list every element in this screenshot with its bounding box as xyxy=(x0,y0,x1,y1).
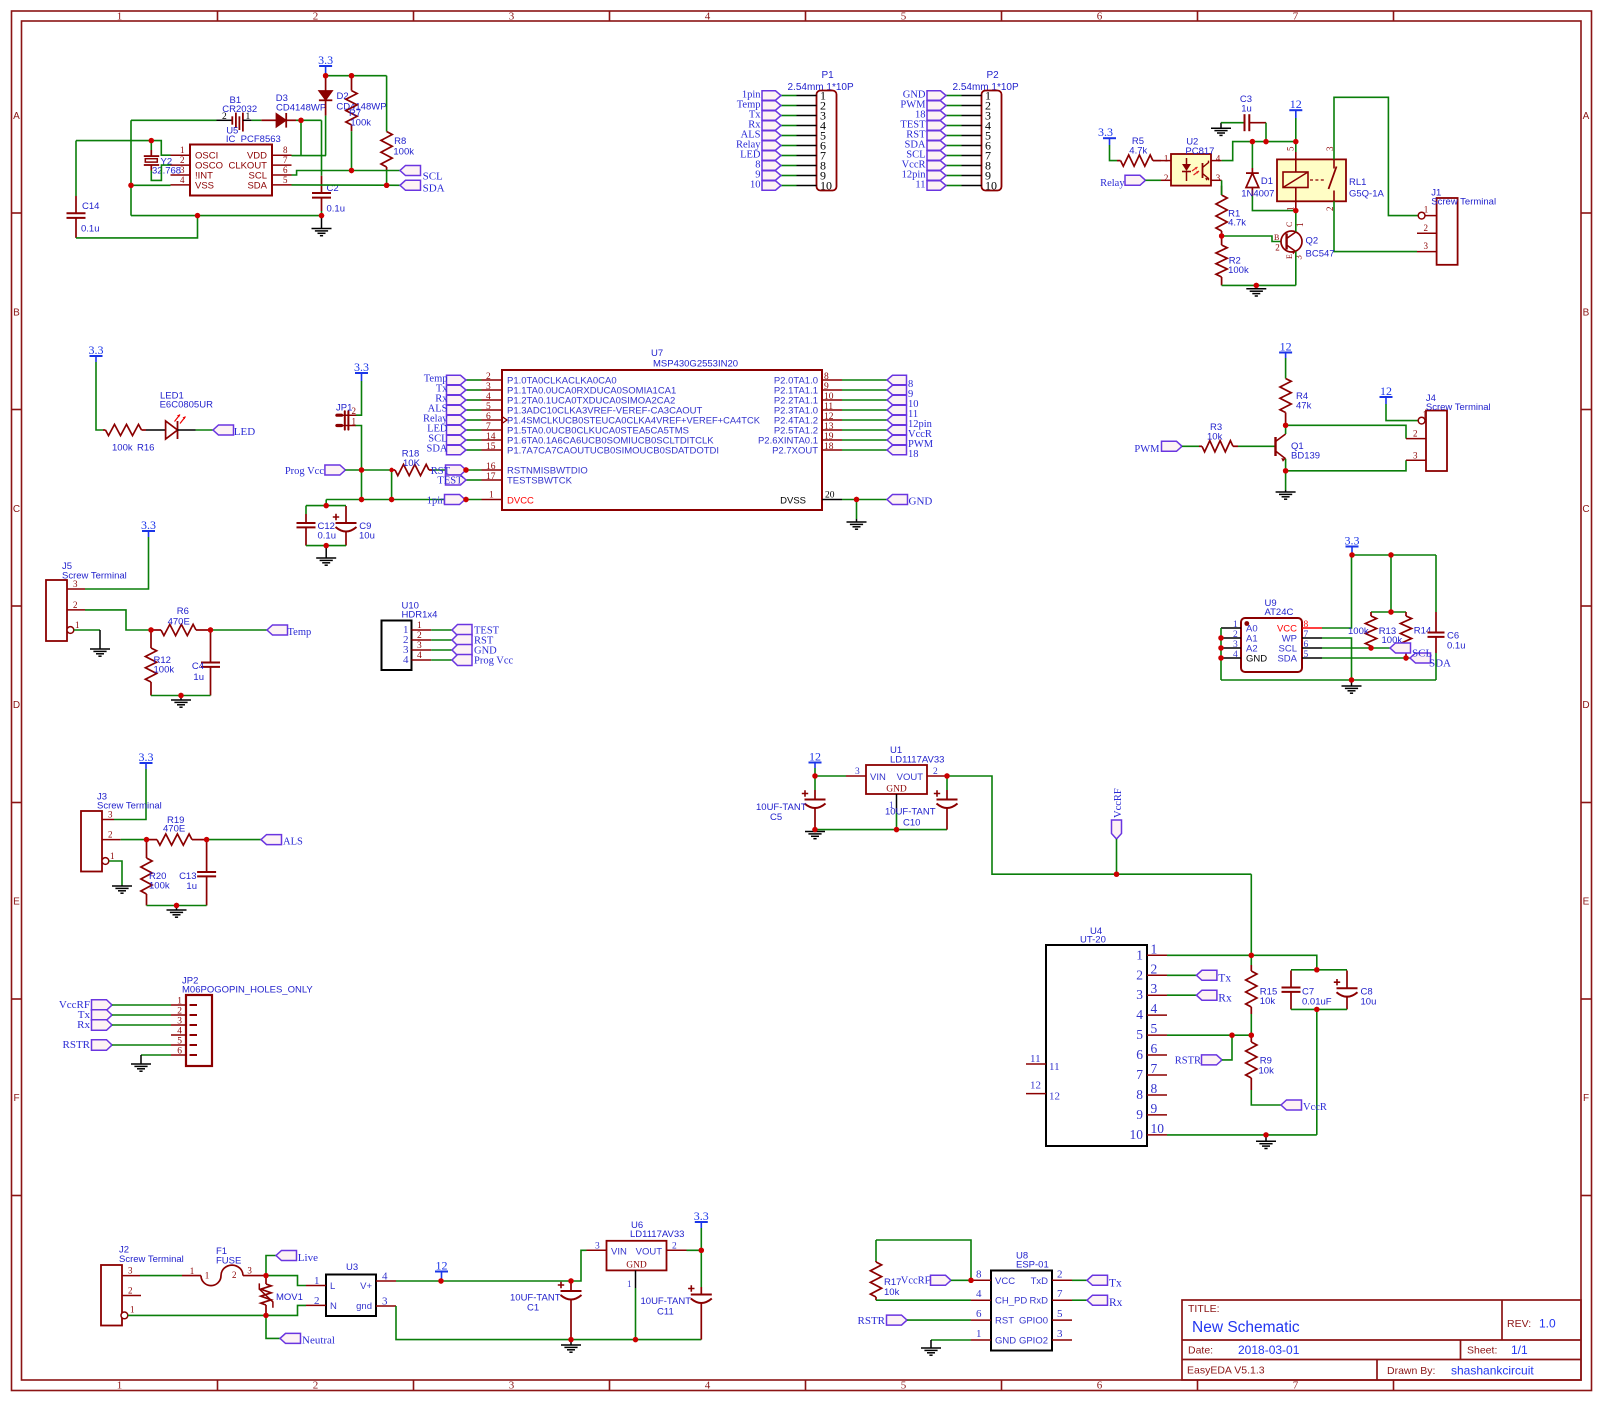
port Neutral xyxy=(280,1333,301,1343)
port Live xyxy=(276,1251,297,1261)
port Temp xyxy=(267,625,288,635)
svg-text:4: 4 xyxy=(417,651,422,661)
wire xyxy=(391,470,393,500)
svg-text:10K: 10K xyxy=(403,458,421,469)
wire DVSS xyxy=(842,499,887,501)
port Tx (U8) xyxy=(1087,1275,1108,1285)
svg-text:0.1u: 0.1u xyxy=(1447,641,1466,652)
U10 pin 1 xyxy=(412,629,432,631)
pin 7 CLKOUT xyxy=(272,164,292,166)
resistor R3 10k xyxy=(1199,445,1202,447)
P1 pin 1 xyxy=(797,95,817,97)
svg-text:B: B xyxy=(1583,307,1590,318)
port TEST xyxy=(446,475,467,485)
U10 pin 2 xyxy=(412,639,432,641)
svg-text:CD4148WP: CD4148WP xyxy=(336,102,386,113)
wire xyxy=(781,175,797,177)
J4 pin 1 xyxy=(1425,420,1426,422)
U7 pin 11 P2.3TA1.0 xyxy=(822,409,842,411)
port ALS xyxy=(762,131,781,140)
U7 pin 3 P1.1TA0.0UCA0RXDUCA0SOMIA1CA1 xyxy=(482,389,503,391)
port 18 (U7) xyxy=(887,445,907,454)
svg-text:1: 1 xyxy=(1164,154,1169,164)
svg-text:A: A xyxy=(1583,111,1590,122)
node xyxy=(1314,1007,1319,1012)
port SDA xyxy=(400,180,421,190)
ground (JP2) xyxy=(131,1055,151,1071)
svg-text:2: 2 xyxy=(313,1380,319,1392)
svg-text:G5Q-1A: G5Q-1A xyxy=(1349,189,1385,200)
svg-text:7: 7 xyxy=(1151,1061,1158,1076)
svg-text:D: D xyxy=(13,700,20,711)
wire xyxy=(946,155,962,157)
wire base xyxy=(1222,236,1284,242)
port 1pin xyxy=(762,91,781,100)
P1 pin 6 xyxy=(797,145,817,147)
svg-text:12: 12 xyxy=(809,750,821,764)
wire xyxy=(466,419,482,421)
port VccR (U4) xyxy=(1281,1100,1302,1110)
capacitor C13 1u xyxy=(206,840,208,872)
port RST xyxy=(927,131,946,140)
wire cap rail bottom xyxy=(306,545,346,547)
svg-text:12: 12 xyxy=(1280,340,1292,354)
port 12pin (U7) xyxy=(887,415,907,424)
node R19 right xyxy=(204,837,209,842)
wire xyxy=(114,769,146,820)
svg-text:C5: C5 xyxy=(770,812,782,823)
svg-text:GPIO0: GPIO0 xyxy=(1019,1316,1048,1327)
U7 pin 13 P2.5TA1.2 xyxy=(822,429,842,431)
wire xyxy=(1285,425,1287,434)
wire xyxy=(112,1024,171,1026)
power flag 12V (relay) xyxy=(1289,97,1302,118)
capacitor C4 1u xyxy=(210,630,212,663)
wire xyxy=(131,119,217,121)
svg-text:Screw Terminal: Screw Terminal xyxy=(97,801,162,812)
wire xyxy=(635,1288,637,1340)
svg-text:SDA: SDA xyxy=(423,183,445,195)
resistor R20 100k xyxy=(146,840,148,858)
wire emitter to J4 pin3 xyxy=(1286,460,1406,471)
node xyxy=(1314,967,1319,972)
svg-text:New Schematic: New Schematic xyxy=(1192,1319,1300,1336)
wire VDD row xyxy=(292,155,327,157)
node R15 bottom xyxy=(1249,1033,1254,1038)
node ProgVcc xyxy=(359,467,364,472)
node VOUT 3.3 xyxy=(699,1248,704,1253)
svg-text:Drawn By:: Drawn By: xyxy=(1387,1365,1435,1377)
svg-text:9: 9 xyxy=(1151,1101,1158,1116)
svg-text:18: 18 xyxy=(908,449,919,460)
J2 pin 3 xyxy=(122,1275,140,1277)
svg-text:8: 8 xyxy=(976,1268,982,1280)
svg-text:Prog Vcc: Prog Vcc xyxy=(474,656,514,667)
J4 pin 2 xyxy=(1406,438,1426,440)
power flag 3.3V (J5) xyxy=(141,518,156,537)
wire SCL xyxy=(1322,647,1390,649)
wire Live xyxy=(266,1256,276,1276)
svg-text:6: 6 xyxy=(1097,1380,1103,1392)
svg-text:TxD: TxD xyxy=(1031,1276,1049,1287)
port PWM xyxy=(927,101,946,110)
wire xyxy=(781,95,797,97)
port SCL (U7) xyxy=(447,435,467,444)
svg-text:E6C0805UR: E6C0805UR xyxy=(160,399,213,410)
svg-text:Tx: Tx xyxy=(1109,1277,1122,1289)
port Rx (U7) xyxy=(447,395,467,404)
wire xyxy=(946,185,962,187)
svg-text:15: 15 xyxy=(486,442,496,452)
port LED (U7) xyxy=(447,425,467,434)
svg-text:1u: 1u xyxy=(193,672,204,683)
node collector xyxy=(1283,423,1288,428)
pin 6 SCL xyxy=(272,174,292,176)
ground (DVSS) xyxy=(847,519,867,529)
U2 pin 3 xyxy=(1211,179,1222,181)
svg-text:4: 4 xyxy=(705,11,711,23)
svg-text:2: 2 xyxy=(177,1007,182,1017)
svg-text:0.1u: 0.1u xyxy=(327,204,346,215)
U4 pin 4 xyxy=(1147,1014,1167,1016)
svg-text:2: 2 xyxy=(108,830,113,840)
wire J2-1 xyxy=(128,1314,266,1316)
svg-text:GND: GND xyxy=(1246,654,1267,665)
wire Rx xyxy=(1072,1299,1087,1301)
wire J3-1 gnd xyxy=(109,861,122,885)
svg-text:CD4148WP: CD4148WP xyxy=(276,103,326,114)
wire Temp xyxy=(211,629,268,631)
svg-text:B: B xyxy=(13,307,20,318)
svg-text:4: 4 xyxy=(1216,154,1221,164)
power flag 3.3V (U9) xyxy=(1345,534,1360,556)
svg-text:RST: RST xyxy=(995,1316,1014,1327)
power flag 12V (R4) xyxy=(1279,340,1292,359)
svg-text:10: 10 xyxy=(1151,1121,1165,1136)
resistor R12 100k xyxy=(150,630,152,648)
svg-text:3: 3 xyxy=(108,810,113,820)
U4 pin 8 xyxy=(1147,1094,1167,1096)
svg-text:PC817: PC817 xyxy=(1185,146,1214,157)
U4 pin 9 xyxy=(1147,1114,1167,1116)
port GND (U10) xyxy=(452,645,472,656)
port 8 (U7) xyxy=(887,375,907,384)
svg-text:4.7k: 4.7k xyxy=(1228,218,1246,229)
wire VccRF to pin1 xyxy=(1250,874,1252,955)
U4 pin 3 xyxy=(1147,994,1167,996)
svg-text:C1: C1 xyxy=(527,1303,539,1314)
wire xyxy=(321,120,323,176)
U9 pin 3 A2 xyxy=(1221,647,1241,649)
wire xyxy=(76,216,198,238)
U7 pin 12 P2.4TA1.2 xyxy=(822,419,842,421)
ground (Q1) xyxy=(1276,490,1296,499)
wire xyxy=(842,399,887,401)
P2 pin 10 xyxy=(962,185,982,187)
wire pin10 xyxy=(1167,1134,1317,1136)
wire OSCO jog xyxy=(151,165,170,180)
svg-text:3: 3 xyxy=(1413,450,1418,460)
port GND xyxy=(887,495,908,505)
svg-text:RSTR: RSTR xyxy=(857,1315,885,1327)
resistor R14 100k xyxy=(1405,612,1407,616)
wire xyxy=(112,1004,171,1006)
svg-text:2: 2 xyxy=(1275,242,1280,252)
node VIN xyxy=(812,773,817,778)
connector J1 Screw Terminal xyxy=(1437,198,1458,265)
wire xyxy=(466,399,482,401)
wire xyxy=(1435,653,1437,680)
wire xyxy=(687,1228,702,1250)
J2 pin 2 xyxy=(122,1295,141,1297)
svg-text:1: 1 xyxy=(489,491,494,501)
resistor R2 100k xyxy=(1221,236,1223,245)
svg-text:TESTSBWTCK: TESTSBWTCK xyxy=(507,476,573,487)
ground (J3) xyxy=(112,885,132,893)
node xyxy=(1114,872,1119,877)
relay RL1 G5Q-1A xyxy=(1277,159,1346,201)
svg-text:P2.7XOUT: P2.7XOUT xyxy=(772,446,818,457)
port VccRF (rail) xyxy=(1112,820,1122,839)
wire relay pin2 down xyxy=(1334,201,1417,251)
JP2 pin 5 xyxy=(171,1044,186,1046)
svg-text:UT-20: UT-20 xyxy=(1080,935,1106,946)
svg-text:1: 1 xyxy=(180,145,185,155)
U7 pin 8 P2.0TA1.0 xyxy=(822,379,842,381)
U1 pin 2 VOUT xyxy=(927,775,947,777)
svg-text:7: 7 xyxy=(1293,1380,1299,1392)
port Rx (U8) xyxy=(1087,1295,1108,1305)
wire R13/R14 top xyxy=(1391,555,1406,612)
svg-text:5: 5 xyxy=(1304,650,1309,660)
svg-text:3: 3 xyxy=(1216,173,1221,183)
svg-text:CR2032: CR2032 xyxy=(222,104,257,115)
svg-text:12: 12 xyxy=(1030,1080,1041,1092)
U7 pin 4 P1.2TA0.1UCA0TXDUCA0SIMOA2CA2 xyxy=(482,399,503,401)
U7 pin 19 P2.6XINTA0.1 xyxy=(822,439,842,441)
diode D3 CD4148WP xyxy=(261,113,296,128)
svg-text:100k: 100k xyxy=(393,147,414,158)
power flag 3.3V (JP1) xyxy=(354,360,369,381)
node Q2 collector xyxy=(1293,208,1298,213)
resistor R16 100k xyxy=(103,429,106,431)
wire N xyxy=(266,1305,306,1315)
svg-text:C: C xyxy=(13,504,20,515)
U9 pin 2 A1 xyxy=(1221,637,1241,639)
U7 pin 15 P1.7A7CA7CAOUTUCB0SIMOUCB0SDATDOTDI xyxy=(482,449,503,451)
connector J4 Screw Terminal xyxy=(1426,411,1447,472)
LED LED1 E6C0805UR xyxy=(146,415,196,440)
svg-text:P2: P2 xyxy=(987,70,1000,81)
pin 1 OSCI xyxy=(171,154,191,156)
svg-text:3: 3 xyxy=(73,579,78,589)
svg-text:Sheet:: Sheet: xyxy=(1467,1345,1497,1357)
node 1pin xyxy=(463,497,468,502)
wire xyxy=(1295,118,1297,152)
svg-text:MSP430G2553IN20: MSP430G2553IN20 xyxy=(653,359,738,370)
svg-text:11: 11 xyxy=(915,180,925,191)
svg-text:GND: GND xyxy=(626,1261,647,1271)
wire xyxy=(466,449,482,451)
P2 pin 6 xyxy=(962,145,982,147)
svg-text:5: 5 xyxy=(901,11,907,23)
svg-text:12: 12 xyxy=(1290,97,1302,111)
svg-text:19: 19 xyxy=(824,432,834,442)
svg-text:11: 11 xyxy=(824,402,833,412)
svg-text:gnd: gnd xyxy=(356,1301,372,1312)
port Tx xyxy=(762,111,781,120)
port 11 (U7) xyxy=(887,405,907,414)
resistor R9 10k xyxy=(1250,1035,1252,1042)
svg-text:HDR1x4: HDR1x4 xyxy=(402,610,438,621)
svg-text:13: 13 xyxy=(824,422,834,432)
port SCL (U9) xyxy=(1390,643,1411,653)
svg-text:P1: P1 xyxy=(822,70,835,81)
svg-text:4: 4 xyxy=(1136,1007,1143,1022)
svg-text:A: A xyxy=(13,111,20,122)
svg-text:LD1117AV33: LD1117AV33 xyxy=(630,1229,684,1240)
U4 pin 11 xyxy=(1026,1063,1046,1065)
pin 5 SDA xyxy=(272,184,292,186)
svg-text:10u: 10u xyxy=(1361,997,1377,1008)
wire xyxy=(386,76,388,132)
svg-text:JP1: JP1 xyxy=(336,403,352,414)
svg-text:2: 2 xyxy=(1057,1268,1063,1280)
svg-text:6: 6 xyxy=(976,1308,982,1320)
svg-text:2: 2 xyxy=(128,1286,133,1296)
wire RST xyxy=(433,469,482,471)
svg-text:BC547: BC547 xyxy=(1306,249,1335,260)
svg-text:1: 1 xyxy=(352,416,357,426)
svg-text:6: 6 xyxy=(283,165,288,175)
wire collector xyxy=(1295,211,1297,232)
wire xyxy=(946,165,962,167)
svg-text:AT24C: AT24C xyxy=(1265,607,1294,618)
svg-text:17: 17 xyxy=(486,472,496,482)
svg-text:3: 3 xyxy=(509,1380,515,1392)
resistor R1 4.7k xyxy=(1221,186,1223,195)
svg-text:1N4007: 1N4007 xyxy=(1241,189,1274,200)
svg-text:1: 1 xyxy=(314,1275,320,1287)
svg-text:100k: 100k xyxy=(1348,626,1369,637)
wire gnd rail (U3) xyxy=(396,1306,701,1340)
capacitor C12 0.1u xyxy=(305,506,307,514)
U4 pin 10 xyxy=(1147,1134,1167,1136)
port 10 xyxy=(762,181,781,190)
U7 pin 20 DVSS xyxy=(822,499,842,501)
svg-text:5: 5 xyxy=(1286,146,1296,151)
svg-text:47k: 47k xyxy=(1296,401,1312,412)
pin 4 VSS xyxy=(171,184,191,186)
JP2 pin 4 xyxy=(171,1034,186,1036)
port Relay xyxy=(762,141,781,150)
J3 pin 3 xyxy=(102,819,114,821)
svg-text:3: 3 xyxy=(1151,981,1158,996)
svg-text:470E: 470E xyxy=(168,617,190,628)
wire Tx xyxy=(1072,1279,1087,1281)
wire xyxy=(356,426,362,500)
svg-text:6: 6 xyxy=(1097,11,1103,23)
wire xyxy=(946,125,962,127)
svg-text:Tx: Tx xyxy=(1218,973,1231,985)
svg-text:470E: 470E xyxy=(163,824,185,835)
svg-text:3.3: 3.3 xyxy=(139,750,154,764)
transistor Q2 BC547 xyxy=(1281,231,1302,254)
svg-text:2: 2 xyxy=(1151,961,1158,976)
wire xyxy=(252,119,262,121)
U7 pin 16 RSTNMISBWTDIO xyxy=(482,469,503,471)
svg-text:9: 9 xyxy=(1136,1107,1143,1122)
wire pin6 gnd xyxy=(141,1054,171,1056)
power flag 3.3V (opto) xyxy=(1098,125,1116,145)
svg-text:1: 1 xyxy=(627,1279,632,1289)
P1 pin 8 xyxy=(797,165,817,167)
svg-text:3.3: 3.3 xyxy=(141,518,156,532)
node 12V xyxy=(438,1278,443,1283)
resistor R15 10k xyxy=(1250,955,1252,965)
wire xyxy=(781,185,797,187)
port VccR (U7) xyxy=(887,425,907,434)
svg-text:M06POGOPIN_HOLES_ONLY: M06POGOPIN_HOLES_ONLY xyxy=(182,985,313,996)
wire xyxy=(431,639,452,641)
svg-text:C: C xyxy=(1285,222,1294,227)
svg-text:shashankcircuit: shashankcircuit xyxy=(1451,1364,1534,1378)
wire gnd xyxy=(931,1339,971,1341)
svg-text:20: 20 xyxy=(825,491,835,501)
svg-text:12: 12 xyxy=(1049,1091,1060,1103)
node xyxy=(894,827,899,832)
svg-text:E: E xyxy=(13,897,20,908)
svg-text:4: 4 xyxy=(976,1288,982,1300)
wire emitter xyxy=(1295,252,1297,286)
svg-text:3.3: 3.3 xyxy=(1345,534,1360,548)
svg-text:7: 7 xyxy=(1293,11,1299,23)
resistor R18 10K xyxy=(392,469,395,471)
varistor MOV1 xyxy=(265,1276,267,1284)
node xyxy=(633,1337,638,1342)
svg-text:Screw Terminal: Screw Terminal xyxy=(1431,197,1496,208)
node C2 ground xyxy=(319,213,324,218)
svg-text:2: 2 xyxy=(1164,173,1169,183)
U9 pin 6 SCL xyxy=(1302,647,1322,649)
U10 pin 4 xyxy=(412,659,432,661)
capacitor C8 10u xyxy=(1346,971,1348,989)
wire xyxy=(466,389,482,391)
node R15 top xyxy=(1249,953,1254,958)
svg-text:1.0: 1.0 xyxy=(1539,1317,1556,1331)
wire xyxy=(876,1299,971,1301)
svg-text:C14: C14 xyxy=(82,201,99,212)
capacitor C11 10UF-TANT xyxy=(700,1250,702,1287)
svg-text:1: 1 xyxy=(190,1266,195,1276)
node R13 xyxy=(1368,645,1373,650)
wire xyxy=(946,95,962,97)
node DVSS gnd xyxy=(854,497,859,502)
wire xyxy=(466,439,482,441)
svg-text:1: 1 xyxy=(117,11,123,23)
svg-text:EasyEDA V5.1.3: EasyEDA V5.1.3 xyxy=(1187,1365,1265,1377)
J4 pin 3 xyxy=(1406,459,1426,461)
node xyxy=(178,693,183,698)
port LED xyxy=(213,425,234,435)
svg-text:SDA: SDA xyxy=(426,444,447,455)
svg-text:1: 1 xyxy=(1233,620,1238,630)
wire bottom xyxy=(151,695,211,697)
U4 pin 1 xyxy=(1147,954,1167,956)
wire pin5 xyxy=(1167,1034,1251,1036)
U8 pin 8 VCC xyxy=(971,1279,991,1281)
wire xyxy=(1251,1090,1281,1105)
